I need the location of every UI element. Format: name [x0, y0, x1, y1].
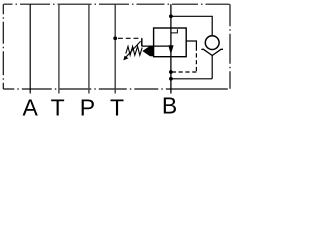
relief valve flow arrow (down)	[168, 45, 173, 54]
wire from check valve seat down	[211, 56, 213, 79]
check valve ball (circle)	[205, 36, 219, 50]
pilot line (dashed) to B line	[172, 71, 196, 73]
junction node on B line (check valve return)	[169, 77, 173, 81]
enclosure chain border right	[229, 4, 231, 89]
junction node on T line (drain)	[113, 36, 117, 40]
adjustable spring	[126, 46, 142, 55]
port line P	[88, 4, 90, 93]
relief valve internal pilot corner	[171, 29, 178, 33]
port line T (second tank line)	[114, 4, 116, 93]
spring adjustment arrow	[126, 41, 141, 57]
junction node on B line (top, to check valve branch)	[169, 14, 173, 18]
port line T (first tank line)	[58, 4, 60, 93]
svg-text:P: P	[80, 94, 95, 120]
port line A	[29, 4, 31, 93]
pilot line (dashed) down	[195, 47, 197, 73]
enclosure chain border bottom	[3, 88, 230, 90]
drain line (dashed) from T line to spring chamber	[118, 37, 142, 39]
enclosure chain border top	[4, 3, 231, 5]
relief valve spring-side internal passage	[142, 45, 169, 47]
pilot line stub from valve body right side	[186, 41, 196, 47]
svg-text:T: T	[51, 94, 65, 120]
wire check valve return to B line	[171, 78, 212, 80]
pilot wedge (solid arrow into valve body)	[142, 46, 153, 56]
check valve seat	[201, 49, 223, 55]
wire from node to check valve top	[171, 16, 212, 35]
svg-text:A: A	[23, 94, 39, 120]
port line B (main line through relief valve)	[170, 4, 172, 93]
junction node on B line (pilot)	[169, 70, 173, 74]
svg-text:B: B	[162, 92, 177, 118]
enclosure chain border left	[2, 4, 4, 89]
relief valve body (square)	[154, 28, 187, 57]
svg-text:T: T	[110, 94, 124, 120]
spring chamber port corner	[141, 38, 143, 46]
